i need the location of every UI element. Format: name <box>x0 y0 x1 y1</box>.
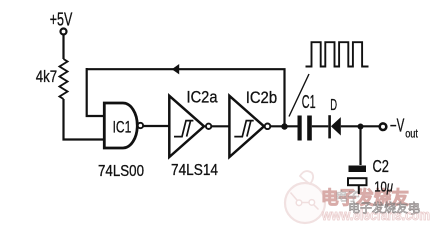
svg-text:IC2b: IC2b <box>246 89 277 107</box>
+5V terminal <box>61 29 67 35</box>
IC2a schmitt symbol <box>174 121 193 137</box>
wire +5V to resistor <box>62 35 64 59</box>
wire IC2b to node <box>271 125 298 127</box>
IC2a output bubble <box>206 124 211 129</box>
wire C2 to ground <box>358 185 360 194</box>
capacitor C2 plate bottom (hollow) <box>348 178 367 185</box>
IC2b schmitt symbol <box>234 121 253 137</box>
waveform pointer line <box>289 74 309 117</box>
nand gate IC1 <box>104 103 137 148</box>
inverter IC2b <box>229 96 264 157</box>
svg-text:4k7: 4k7 <box>36 67 57 86</box>
inverter IC2a <box>169 96 204 157</box>
IC2b output bubble <box>265 124 271 130</box>
wire C1 to diode <box>312 125 329 127</box>
capacitor C2 plate top (filled) <box>349 166 367 173</box>
resistor R1 zigzag <box>60 59 68 99</box>
svg-text:C2: C2 <box>373 156 389 176</box>
wire diode to output node <box>341 125 379 127</box>
IC1 output bubble <box>138 123 143 128</box>
node junction at IC2b output <box>281 123 287 129</box>
watermark logo circle <box>285 171 325 223</box>
output terminal <box>380 123 387 130</box>
wire node to C2 <box>359 127 361 166</box>
wire IC2a to IC2b <box>212 125 230 127</box>
capacitor C1 plate left <box>298 116 302 141</box>
svg-text:+5V: +5V <box>50 9 73 29</box>
wire resistor to IC1 lower input <box>64 99 105 140</box>
feedback arrow <box>172 64 179 74</box>
svg-text:10μ: 10μ <box>374 178 393 195</box>
svg-text:D: D <box>330 97 337 114</box>
svg-text:C1: C1 <box>302 92 316 112</box>
square wave symbol <box>306 42 369 66</box>
diode D cathode bar <box>328 115 331 138</box>
svg-text:IC2a: IC2a <box>187 89 219 107</box>
svg-text:子: 子 <box>408 202 420 216</box>
output node junction <box>358 124 364 130</box>
diode D triangle <box>331 117 341 135</box>
svg-text:74LS14: 74LS14 <box>171 162 218 179</box>
svg-text:74LS00: 74LS00 <box>98 163 144 180</box>
wire IC1 to IC2a <box>143 125 169 127</box>
capacitor C1 plate right <box>307 116 312 141</box>
feedback wire from output node to IC1 upper input <box>87 69 285 126</box>
svg-text:out: out <box>405 126 418 140</box>
svg-text:−V: −V <box>390 115 405 135</box>
svg-text:IC1: IC1 <box>113 118 132 137</box>
